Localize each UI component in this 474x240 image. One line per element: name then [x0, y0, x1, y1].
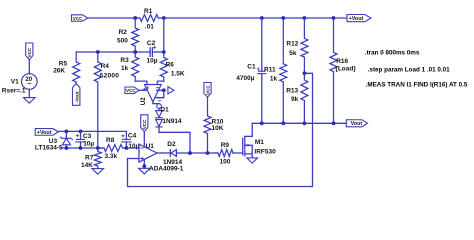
- svg-text:ADA4099-1: ADA4099-1: [149, 166, 184, 173]
- svg-text:5k: 5k: [289, 50, 297, 57]
- capacitor C2: [150, 46, 156, 56]
- wire C2 to x163.8: [152, 51, 163, 53]
- svg-text:U2: U2: [140, 97, 147, 105]
- node C4 bottom: [125, 146, 129, 150]
- label R4: [101, 63, 110, 70]
- label R1: [144, 8, 153, 15]
- wire U1 V- to ground: [143, 159, 145, 168]
- label R10: [212, 118, 224, 125]
- wire top rail down to C2 node: [163, 18, 165, 52]
- label 100: [220, 158, 231, 165]
- svg-text:4700µ: 4700µ: [236, 75, 254, 82]
- resistor R12: [301, 18, 308, 73]
- directive .MEAS: [366, 81, 468, 88]
- directive .step: [368, 66, 450, 73]
- svg-text:10K: 10K: [212, 125, 224, 132]
- svg-text:VCC: VCC: [126, 88, 136, 93]
- node top rail R12: [303, 16, 307, 20]
- svg-text:1.5K: 1.5K: [171, 71, 185, 78]
- label Rser=.1: [2, 88, 26, 95]
- resistor R7: [94, 148, 101, 169]
- resistor R13: [301, 73, 308, 123]
- transistor M1 drain: [245, 123, 252, 136]
- label C2: [147, 40, 156, 47]
- svg-text:R5: R5: [59, 60, 68, 67]
- diode D2: [170, 150, 176, 157]
- power flag VCC (top left): [72, 15, 88, 21]
- svg-text:R12: R12: [286, 41, 298, 48]
- node top rail R16: [332, 16, 336, 20]
- power flag VCC (above U1): [141, 115, 148, 132]
- ground (below R7): [92, 169, 103, 175]
- port flag (right of U2): [168, 87, 174, 94]
- wire C4 to U1: [126, 147, 139, 149]
- svg-text:52000: 52000: [100, 73, 119, 80]
- label R3: [120, 57, 129, 64]
- node R4 top: [96, 50, 100, 54]
- wire U2 output to node: [157, 89, 164, 91]
- wire D2 to R9: [176, 152, 218, 154]
- wire VCC-flag to V1: [28, 60, 30, 74]
- wire V1 to ground: [28, 89, 30, 97]
- label R9: [221, 142, 230, 149]
- svg-text:1k: 1k: [270, 75, 278, 82]
- label (Load): [335, 65, 356, 72]
- diode D1 second junction: [156, 120, 163, 127]
- svg-text:R6: R6: [166, 61, 175, 68]
- wire U1 out to D2: [157, 152, 170, 154]
- label 1N914 (D2): [163, 159, 183, 166]
- node C2/R6: [162, 50, 166, 54]
- resistor R11: [280, 18, 287, 123]
- node top rail R11: [281, 16, 285, 20]
- label 10u (C4): [128, 143, 139, 150]
- svg-text:D2: D2: [167, 141, 176, 148]
- svg-text:R8: R8: [106, 137, 115, 144]
- wire R1 to +Vout flag (top rail): [158, 17, 347, 19]
- label LT1634-5: [35, 144, 63, 151]
- node U2 right: [162, 88, 166, 92]
- node U3 top: [65, 130, 69, 134]
- svg-text:10µ: 10µ: [128, 143, 139, 150]
- svg-text:100: 100: [220, 158, 231, 165]
- wire VCC to U1 V+: [143, 132, 145, 148]
- wire VCC to R1 (top rail left): [88, 17, 140, 19]
- svg-text:1k: 1k: [121, 65, 129, 72]
- transistor M1 bulk arrow: [245, 144, 252, 147]
- label V1: [11, 79, 19, 86]
- svg-text:.01: .01: [145, 23, 154, 30]
- svg-text:R9: R9: [221, 142, 230, 149]
- label 10u (C2): [147, 57, 158, 64]
- svg-text:10µ: 10µ: [83, 140, 94, 147]
- svg-text:D1: D1: [160, 107, 169, 114]
- resistor R2: [132, 18, 139, 52]
- wire Vout bus: [252, 122, 346, 124]
- node R2/R3/C2: [133, 50, 137, 54]
- node bus R11: [281, 121, 285, 125]
- wire U1 plus input: [128, 158, 140, 160]
- label C1: [247, 64, 256, 71]
- svg-text:U1: U1: [146, 143, 155, 150]
- label 10u (C3): [83, 140, 94, 147]
- label C4: [128, 133, 137, 140]
- svg-text:Rser=.1: Rser=.1: [2, 88, 26, 95]
- wire R3 to U2 plus input: [135, 81, 147, 84]
- svg-text:R13: R13: [286, 88, 298, 95]
- label D2: [167, 141, 176, 148]
- svg-text:VCC: VCC: [205, 85, 210, 95]
- node R4/R7: [96, 146, 100, 150]
- label .01: [145, 23, 154, 30]
- svg-text:3.3k: 3.3k: [105, 153, 118, 160]
- label 4700u: [236, 75, 254, 82]
- node D1 branch: [188, 151, 192, 155]
- label 10K: [212, 125, 224, 132]
- power flag VCC (left of U2): [125, 87, 139, 94]
- svg-text:R11: R11: [264, 67, 276, 74]
- svg-text:+Vout: +Vout: [37, 130, 52, 136]
- svg-text:C4: C4: [128, 133, 137, 140]
- svg-text:+Vout: +Vout: [349, 16, 364, 22]
- node U1 V-: [142, 164, 146, 168]
- svg-text:1N914: 1N914: [162, 118, 182, 125]
- label R11: [264, 67, 276, 74]
- ground (below U1): [139, 168, 150, 174]
- node C3 top: [79, 130, 83, 134]
- svg-text:V1: V1: [11, 79, 19, 86]
- label D1: [160, 107, 169, 114]
- svg-text:9k: 9k: [291, 96, 299, 103]
- directive .tran: [365, 49, 420, 56]
- wire y52 rail: [76, 51, 150, 53]
- capacitor C4: [122, 135, 131, 148]
- label R12: [286, 41, 298, 48]
- node C3 bottom: [79, 146, 83, 150]
- label C3: [83, 133, 92, 140]
- resistor R1: [140, 15, 159, 22]
- wire D1 to gate row: [159, 127, 190, 153]
- flag +Vout (mid left): [35, 129, 58, 136]
- label 26K: [53, 68, 65, 75]
- svg-text:R7: R7: [85, 155, 94, 162]
- op-amp U2: [145, 85, 162, 102]
- label R2: [119, 29, 128, 36]
- resistor R9: [214, 150, 233, 157]
- label R16: [336, 58, 348, 65]
- resistor R5: [73, 52, 80, 84]
- capacitor C1: [257, 18, 266, 123]
- label M1: [255, 139, 264, 146]
- svg-text:R16: R16: [336, 58, 348, 65]
- svg-text:-Vout: -Vout: [74, 91, 79, 103]
- wire R6 to U2 minus input: [157, 81, 163, 84]
- label U1: [146, 143, 155, 150]
- label R7: [85, 155, 94, 162]
- ground (below V1): [24, 98, 35, 104]
- power flag VCC (above V1): [26, 43, 33, 60]
- svg-text:.MEAS TRAN I1 FIND I(R16) AT 0: .MEAS TRAN I1 FIND I(R16) AT 0.5: [366, 81, 468, 88]
- node U3 bottom: [65, 146, 69, 150]
- svg-text:R4: R4: [101, 63, 110, 70]
- svg-text:C1: C1: [247, 64, 256, 71]
- label R6: [166, 61, 175, 68]
- node R2-top junction: [133, 16, 137, 20]
- svg-text:R1: R1: [144, 8, 153, 15]
- feedback loop wire: [128, 73, 313, 186]
- capacitor C3: [76, 131, 85, 148]
- transistor M1 source: [245, 145, 252, 158]
- svg-text:C3: C3: [83, 133, 92, 140]
- wire reference rail: [61, 147, 104, 149]
- node top rail x=163.8: [162, 16, 166, 20]
- svg-text:{Load}: {Load}: [335, 65, 356, 72]
- label 9k: [291, 96, 299, 103]
- label R13: [286, 88, 298, 95]
- transistor M1 gate bar: [242, 138, 244, 155]
- resistor R4: [94, 52, 101, 148]
- svg-text:1N914: 1N914: [163, 159, 183, 166]
- svg-text:R2: R2: [119, 29, 128, 36]
- label 1k (R3): [121, 65, 129, 72]
- svg-text:10µ: 10µ: [147, 57, 158, 64]
- node bus C1: [260, 121, 264, 125]
- resistor R10: [204, 97, 211, 153]
- label R8: [106, 137, 115, 144]
- svg-text:R3: R3: [120, 57, 129, 64]
- label 52000: [100, 73, 119, 80]
- svg-text:.tran 0 800ms 0ms: .tran 0 800ms 0ms: [365, 49, 420, 56]
- svg-text:M1: M1: [255, 139, 264, 146]
- label 3.3k: [105, 153, 118, 160]
- diode D1: [156, 111, 163, 118]
- svg-text:500: 500: [117, 38, 128, 45]
- ground (below M1): [247, 158, 258, 163]
- transistor M1 channel: [244, 136, 246, 155]
- svg-text:.step param Load 1 .01 0.01: .step param Load 1 .01 0.01: [368, 66, 450, 73]
- label 500: [117, 38, 128, 45]
- node bus R16: [332, 121, 336, 125]
- wire +Vout rail: [58, 131, 126, 139]
- wire R9 to M1 gate: [233, 152, 243, 154]
- label U3: [49, 138, 58, 145]
- label 14K: [81, 162, 93, 169]
- node R12/R13 tap: [303, 71, 307, 75]
- resistor R3: [132, 52, 139, 81]
- node bus R13: [303, 121, 307, 125]
- node top rail C1: [260, 16, 264, 20]
- svg-text:14K: 14K: [81, 162, 93, 169]
- output marker circle: [157, 104, 162, 109]
- flag Vout (right): [346, 120, 367, 127]
- wire circle to D1: [158, 108, 160, 110]
- wire U2 output jog: [153, 102, 159, 104]
- shunt reference U3 LT1634-5: [60, 131, 72, 148]
- svg-text:C2: C2: [147, 40, 156, 47]
- svg-text:VCC: VCC: [27, 47, 32, 57]
- label 1.5K: [171, 71, 185, 78]
- node R10 branch: [206, 151, 210, 155]
- svg-text:26K: 26K: [53, 68, 65, 75]
- label U2: [140, 97, 147, 105]
- op-amp U1: [139, 144, 157, 162]
- svg-text:VCC: VCC: [142, 119, 147, 129]
- power flag VCC (above R10): [204, 83, 211, 98]
- wire VCC to U2 V+: [139, 88, 147, 90]
- svg-text:VCC: VCC: [73, 16, 83, 21]
- resistor R6: [160, 52, 167, 81]
- flag -Vout (below R5): [73, 84, 80, 106]
- svg-text:IRF530: IRF530: [254, 149, 276, 156]
- wire U2 V- stub: [156, 90, 164, 101]
- svg-text:Vout: Vout: [351, 121, 363, 127]
- svg-text:LT1634-5: LT1634-5: [35, 144, 63, 151]
- label 1N914 (D1): [162, 118, 182, 125]
- label IRF530: [254, 149, 276, 156]
- resistor R16: [330, 18, 337, 123]
- label ADA4099-1: [149, 166, 184, 173]
- label 5k: [289, 50, 297, 57]
- label R5: [59, 60, 68, 67]
- flag +Vout (top right): [347, 15, 371, 23]
- svg-text:20: 20: [25, 77, 32, 83]
- label 1k (R11): [270, 75, 278, 82]
- voltage source V1: [22, 74, 38, 90]
- resistor R8: [101, 145, 127, 152]
